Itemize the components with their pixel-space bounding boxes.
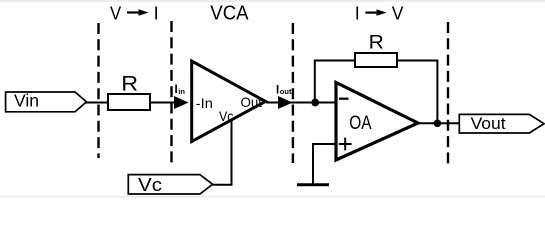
- svg-text:Out: Out: [241, 94, 263, 110]
- svg-text:I: I: [175, 84, 178, 96]
- svg-text:Vc: Vc: [138, 174, 162, 195]
- svg-text:R: R: [369, 31, 384, 53]
- svg-text:R: R: [121, 73, 138, 96]
- svg-text:Vin: Vin: [14, 91, 39, 111]
- svg-text:VCA: VCA: [210, 3, 249, 25]
- svg-text:OA: OA: [349, 113, 371, 134]
- svg-text:out: out: [280, 87, 292, 96]
- svg-text:V: V: [110, 3, 121, 23]
- svg-text:Vc: Vc: [219, 108, 234, 124]
- svg-text:I: I: [276, 84, 279, 96]
- svg-text:I: I: [355, 3, 360, 23]
- svg-text:-In: -In: [196, 95, 213, 111]
- svg-text:Vout: Vout: [471, 115, 507, 133]
- svg-text:I: I: [154, 3, 159, 23]
- svg-text:in: in: [178, 87, 185, 96]
- svg-text:V: V: [392, 3, 404, 23]
